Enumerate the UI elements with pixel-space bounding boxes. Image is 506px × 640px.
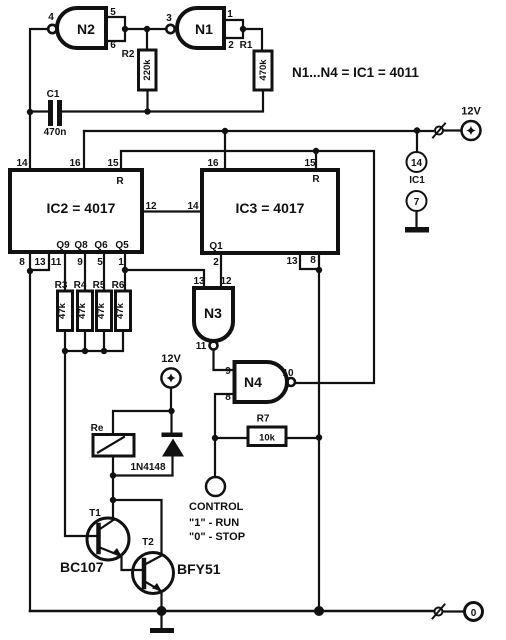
node control (212, 435, 218, 441)
node N2 inputs (122, 26, 128, 32)
node N1 inputs (240, 26, 246, 32)
node T2 emitter on bus (157, 606, 167, 616)
svg-text:12: 12 (145, 201, 157, 212)
svg-text:10k: 10k (259, 433, 276, 444)
svg-text:1N4148: 1N4148 (130, 462, 165, 473)
svg-text:14: 14 (187, 201, 199, 212)
node C1/clock junction (27, 109, 33, 115)
control labels (189, 501, 245, 543)
resistor R7 10k (248, 414, 286, 446)
svg-text:BC107: BC107 (60, 559, 104, 575)
svg-text:R4: R4 (74, 280, 87, 291)
svg-text:Re: Re (91, 423, 104, 434)
transistor T2 BFY51 (133, 537, 221, 594)
control terminal circle (206, 477, 225, 496)
svg-text:R2: R2 (122, 49, 135, 60)
wire N2 inputs to R2 top and N1 output (125, 28, 166, 30)
svg-text:1: 1 (118, 257, 124, 268)
wire diode bottom (113, 457, 173, 476)
svg-text:3: 3 (166, 13, 172, 24)
wire C1 row to R1 bottom (30, 110, 48, 112)
node relay/diode bottom (110, 472, 116, 478)
svg-text:8: 8 (19, 257, 25, 268)
relay Re (91, 423, 134, 456)
svg-text:IC3 = 4017: IC3 = 4017 (236, 200, 305, 216)
svg-text:220k: 220k (142, 59, 153, 81)
wire IC2 pin 1 (124, 253, 126, 291)
wire N2 output to C1 node and IC2 pin 14 (30, 29, 49, 170)
resistor R2 220k (122, 49, 156, 90)
wire N3 output to N4 input 9 (214, 350, 235, 371)
svg-text:R1: R1 (240, 40, 253, 51)
wire IC2 pin 8 (29, 253, 31, 271)
svg-text:47k: 47k (77, 302, 88, 319)
wire resistor bus (65, 331, 123, 352)
svg-text:"1" - RUN: "1" - RUN (189, 517, 239, 529)
wire IC3 pin8 down to bus (318, 253, 320, 611)
transistor T1 BC107 (60, 508, 129, 575)
NAND gate N1 (166, 8, 234, 51)
wire IC2 pin 13 (31, 253, 49, 270)
svg-text:N2: N2 (77, 21, 95, 37)
wire N1 inputs tied bracket (224, 20, 243, 38)
svg-text:8: 8 (310, 255, 316, 266)
svg-text:N3: N3 (204, 305, 222, 321)
svg-text:IC1: IC1 (409, 175, 425, 186)
svg-text:IC2 = 4017: IC2 = 4017 (47, 200, 116, 216)
wire T1 collector (112, 500, 114, 519)
IC1 power pin 14 (407, 131, 427, 172)
svg-text:7: 7 (414, 197, 420, 208)
svg-text:11: 11 (51, 257, 62, 268)
node 12V terminal branch (414, 127, 420, 133)
svg-text:5: 5 (97, 257, 103, 268)
svg-text:14: 14 (411, 158, 423, 169)
svg-text:R7: R7 (257, 414, 270, 425)
svg-text:R: R (116, 176, 124, 187)
wire ground bus (30, 610, 434, 613)
node R7 right (316, 434, 322, 440)
NAND gate N3 (193, 276, 233, 352)
node pin13-8 (316, 267, 322, 273)
IC3 = 4017 (187, 158, 338, 268)
svg-text:4: 4 (48, 12, 54, 23)
svg-text:Q6: Q6 (94, 240, 108, 251)
svg-text:1: 1 (227, 9, 233, 20)
svg-text:R3: R3 (55, 280, 68, 291)
svg-text:2: 2 (228, 40, 234, 51)
connector 12V terminal top (433, 106, 481, 141)
wire control terminal (214, 438, 216, 477)
svg-text:15: 15 (304, 158, 316, 169)
node IC3 pin15 (313, 148, 319, 154)
ground symbol bottom (160, 611, 162, 628)
NAND gate N2 (48, 7, 116, 51)
wire R7 right (286, 437, 319, 439)
wire N1 inputs to R1 top (243, 29, 262, 51)
svg-text:Q1: Q1 (209, 241, 223, 252)
svg-text:BFY51: BFY51 (177, 561, 221, 577)
svg-text:0: 0 (471, 608, 477, 619)
svg-text:13: 13 (193, 276, 205, 287)
node IC3 pin16 tap (222, 128, 228, 134)
node bus R5 (101, 348, 107, 354)
wire collector node to T2 collector (113, 500, 162, 555)
svg-text:9: 9 (225, 366, 231, 377)
ground symbol right (405, 227, 429, 233)
svg-text:N1...N4 = IC1 = 4011: N1...N4 = IC1 = 4011 (292, 65, 419, 80)
wire branch to relay (113, 411, 172, 435)
svg-text:R5: R5 (93, 280, 106, 291)
wire branch to diode (170, 411, 172, 433)
svg-text:47k: 47k (96, 302, 107, 319)
IC1 power pin 7 (407, 191, 427, 227)
wire IC3 pin 16 (224, 131, 226, 170)
node Q5 branch (122, 267, 128, 273)
svg-text:9: 9 (77, 257, 83, 268)
wire ground left run (29, 271, 31, 611)
svg-text:13: 13 (286, 256, 298, 267)
svg-text:47k: 47k (115, 302, 126, 319)
svg-text:14: 14 (16, 158, 28, 169)
svg-text:12V: 12V (461, 106, 481, 118)
resistor R5 47k (93, 280, 112, 331)
wire supply rail 12V (84, 130, 433, 132)
svg-text:"0" - STOP: "0" - STOP (189, 531, 245, 543)
node R2 bottom (144, 108, 150, 114)
svg-text:12: 12 (220, 276, 232, 287)
NAND gate N4 (225, 362, 295, 403)
wire reset line IC2 pin15 / IC3 pin15 / N4 output (121, 151, 374, 383)
node bus R3 (62, 348, 68, 354)
wire N4 input 8 (215, 394, 235, 438)
wire down to collector node (112, 476, 114, 501)
svg-text:15: 15 (107, 158, 119, 169)
wire Q5 to N3 input 13 (125, 270, 204, 288)
svg-text:47k: 47k (57, 302, 68, 319)
svg-text:470n: 470n (44, 127, 67, 138)
svg-text:T1: T1 (89, 508, 101, 519)
wire N2 inputs tied bracket (106, 17, 125, 41)
svg-text:T2: T2 (142, 537, 154, 548)
svg-text:CONTROL: CONTROL (189, 501, 244, 513)
svg-text:16: 16 (207, 158, 219, 169)
node pin8-13 line on bus (314, 606, 324, 616)
svg-text:Q5: Q5 (115, 240, 129, 251)
IC2 = 4017 (10, 158, 157, 268)
svg-text:11: 11 (196, 341, 207, 352)
svg-text:2: 2 (213, 257, 219, 268)
svg-text:Q8: Q8 (74, 240, 88, 251)
wire IC3 pin2 to N3 input 12 (220, 253, 222, 288)
wire relay bottom (112, 456, 114, 476)
resistor R3 47k (55, 280, 73, 331)
node R2 top (144, 26, 150, 32)
wire control node to R7 (215, 437, 248, 439)
wire R2 top (146, 29, 148, 50)
wire bus to T1 base (65, 351, 97, 536)
node T1 collector (110, 497, 116, 503)
svg-text:Q9: Q9 (56, 240, 70, 251)
connector 0 terminal (433, 603, 483, 621)
wire R2 bottom (146, 90, 148, 112)
wire IC2 pin 16 (83, 131, 85, 170)
supply 12V mid circle (161, 368, 180, 387)
svg-text:12V: 12V (161, 353, 181, 365)
svg-text:R6: R6 (112, 280, 125, 291)
svg-text:16: 16 (69, 158, 81, 169)
resistor R6 47k (112, 280, 131, 331)
wire IC2 pin 11 (64, 253, 66, 291)
wire T2 emitter (160, 591, 162, 611)
diode 1N4148 (130, 433, 184, 474)
resistor R4 47k (74, 280, 93, 331)
wire IC2 pin 9 (84, 253, 86, 291)
node bus R4 (82, 348, 88, 354)
capacitor C1 470n (44, 89, 67, 138)
svg-text:470k: 470k (258, 59, 269, 81)
resistor R1 470k (240, 40, 272, 90)
svg-text:N1: N1 (195, 21, 213, 37)
svg-text:13: 13 (34, 257, 46, 268)
svg-text:C1: C1 (47, 89, 60, 100)
wire IC3 pin13 (300, 253, 319, 269)
wire 12V mid down (170, 388, 172, 411)
svg-text:N4: N4 (244, 374, 262, 390)
node pins 8-13 (27, 268, 33, 274)
svg-text:R: R (312, 174, 320, 185)
svg-text:10: 10 (282, 368, 294, 379)
wire IC2 pin12 to IC3 pin14 (142, 210, 202, 212)
wire T1 emitter to T2 base (122, 556, 145, 570)
node relay/diode branch (168, 408, 174, 414)
wire IC3 pin 15 (315, 151, 317, 170)
wire IC2 pin 5 (103, 253, 105, 291)
